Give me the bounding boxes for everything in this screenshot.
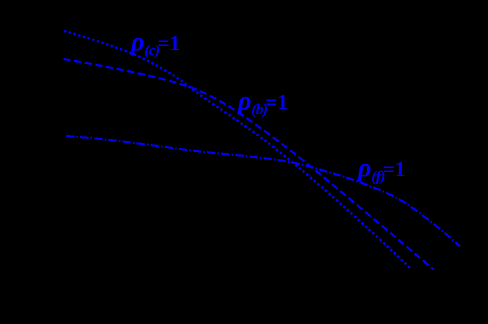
- curve rho_(c)=1 (dotted): [64, 31, 411, 269]
- curve rho_(b)=1 (dashed): [64, 59, 434, 270]
- label rho_(f)=1: [358, 157, 405, 186]
- label rho_(c)=1: [131, 31, 180, 60]
- label rho_(b)=1: [238, 90, 288, 119]
- curve rho_(f)=1 (dash-dot): [66, 136, 460, 246]
